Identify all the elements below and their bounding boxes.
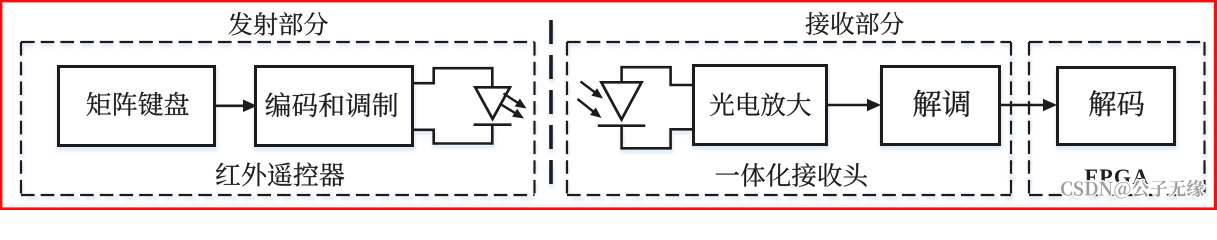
arrow: 解调 -> 解码 — [1001, 99, 1057, 112]
red frame left — [0, 0, 2, 210]
incident light arrow 1 — [581, 82, 604, 99]
wire: photodiode cathode bottom loop to 光电放大 — [622, 126, 692, 149]
arrow: 光电放大 -> 解调 — [828, 99, 881, 112]
block 解调 (demodulate) — [882, 67, 1000, 145]
label 一体化接收头 (integrated receiver) — [716, 163, 867, 187]
dashed enclosure: FPGA — [1029, 42, 1205, 195]
block 编码和调制 (encode & modulate) — [256, 67, 413, 146]
label 红外遥控器 (IR remote) — [216, 163, 344, 187]
LED emission arrow 1 — [504, 94, 527, 109]
block 解码 (decode) — [1058, 68, 1175, 145]
wire: photodiode anode top loop to 光电放大 — [622, 67, 692, 85]
label 接收部分 (receive section) — [806, 12, 904, 35]
text 编码和调制 — [265, 92, 397, 117]
dashed enclosure: transmitter section (红外遥控器) — [21, 42, 535, 195]
text 解码 — [1089, 90, 1144, 116]
incident light arrow 2 — [578, 99, 602, 118]
wire: bottom loop from LED cathode back to 编码和调制 — [413, 125, 492, 144]
LED D1 triangle (emitting diode) — [475, 87, 510, 119]
text 解调 — [913, 90, 969, 117]
label 发射部分 (transmit section) — [228, 12, 327, 35]
red frame right — [1214, 0, 1217, 210]
arrow: 矩阵键盘 -> 编码和调制 — [216, 100, 257, 113]
text 光电放大 — [710, 93, 811, 117]
LED emission arrow 2 — [500, 104, 525, 119]
red frame top — [0, 0, 1217, 2]
LED D1 cathode bar — [474, 123, 512, 126]
red frame bottom — [0, 207, 1217, 210]
bold dashed separator line between transmit and receive — [549, 20, 553, 186]
watermark CSDN@公子无缘 — [1061, 180, 1204, 199]
photodiode D2 cathode bar — [598, 124, 646, 127]
block 矩阵键盘 (matrix keypad) — [59, 67, 215, 146]
wire: top loop from 编码和调制 to LED anode — [413, 68, 492, 87]
dashed enclosure: receiver section (一体化接收头) — [567, 42, 1011, 195]
text 矩阵键盘 — [87, 92, 189, 116]
block 光电放大 (photo amplifier) — [694, 66, 827, 145]
photodiode D2 triangle — [601, 82, 641, 119]
